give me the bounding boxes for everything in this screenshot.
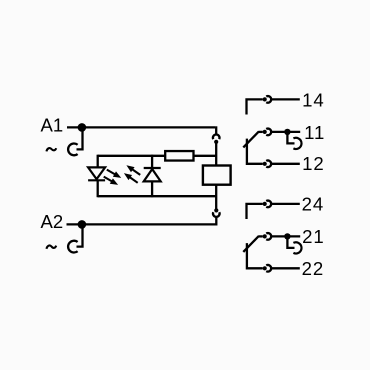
socket, contact 22 <box>266 265 271 272</box>
common stem, contact set 1 <box>247 139 263 164</box>
LED D1 top lead <box>97 155 99 168</box>
label 11 <box>304 122 325 143</box>
pin, contact 21 <box>263 234 267 238</box>
pin, contact 22 <box>263 266 267 270</box>
AC symbol at A2 <box>46 245 56 248</box>
svg-text:A1: A1 <box>41 115 64 136</box>
wire A2 socket branch <box>77 224 83 246</box>
socket, contact 14 <box>266 96 271 103</box>
LED D1 cathode bar <box>88 179 105 181</box>
LED D2 triangle <box>144 169 161 181</box>
pin, contact 24 <box>263 202 267 206</box>
wire 24 to label <box>271 203 300 205</box>
junction dot 11 <box>284 129 290 135</box>
label 22 <box>302 258 324 279</box>
wire input box top <box>98 155 166 157</box>
pin, contact 12 <box>263 162 267 166</box>
contact 11 common wire <box>258 131 262 133</box>
junction dot A2 <box>78 220 87 229</box>
relay coil K <box>203 166 231 185</box>
wire coil plug bottom to A2 <box>215 217 217 226</box>
LED D2 bottom lead <box>151 181 153 197</box>
socket, contact 11 <box>266 129 271 136</box>
junction dot A1 <box>78 123 87 132</box>
wire 21 to label <box>271 235 300 237</box>
svg-text:A2: A2 <box>41 211 64 232</box>
pin, coil plug top <box>214 140 218 144</box>
label 12 <box>302 153 324 174</box>
socket, coil plug bottom <box>213 212 220 217</box>
wire A1 socket branch <box>77 127 83 149</box>
wire coil to bottom pin <box>215 185 217 210</box>
LED D1 bottom lead <box>97 180 99 197</box>
wire second clamp branch 11 <box>287 133 294 143</box>
socket terminal A1 <box>68 144 78 156</box>
wire A1 corner down to coil plug <box>215 126 217 134</box>
svg-text:24: 24 <box>302 194 324 215</box>
LED D2 emission arrows <box>124 165 140 183</box>
svg-text:22: 22 <box>302 258 324 279</box>
label 24 <box>302 194 324 215</box>
contact 14 fixed NO wire <box>247 99 263 114</box>
socket, second clamp 11 <box>293 138 301 149</box>
relay switch arm, contact set 2 <box>243 236 258 252</box>
LED D1 emission arrows <box>104 170 122 185</box>
wire second clamp branch 21 <box>287 238 294 248</box>
pin, contact 11 <box>263 130 267 134</box>
LED D1 triangle <box>88 167 105 179</box>
socket, second clamp 21 <box>293 242 301 253</box>
junction dot 21 <box>284 233 290 239</box>
wire coil plug to coil <box>215 142 217 166</box>
wire 12 to label <box>271 163 300 165</box>
relay switch arm, contact set 1 <box>243 132 258 148</box>
LED D2 top lead <box>151 155 153 168</box>
wire 14 to label <box>271 98 300 100</box>
pin, contact 14 <box>263 97 267 101</box>
socket terminal A2 <box>68 241 78 253</box>
terminal label A2 <box>41 211 64 232</box>
terminal label A1 <box>41 115 64 136</box>
wire 22 to label <box>271 267 300 269</box>
label 21 <box>302 226 324 247</box>
socket, contact 21 <box>266 233 271 240</box>
resistor R1 <box>165 151 193 161</box>
svg-text:11: 11 <box>304 122 325 143</box>
socket, coil plug top <box>213 135 220 140</box>
wire resistor to coil line <box>194 155 217 157</box>
AC symbol at A1 <box>46 148 56 151</box>
wire A2 <box>67 223 217 225</box>
common stem, contact set 2 <box>247 243 263 268</box>
wire 11 to label <box>271 131 300 133</box>
wire input box bottom <box>98 195 217 197</box>
LED D2 cathode bar <box>144 167 161 169</box>
svg-text:14: 14 <box>302 90 324 111</box>
socket, contact 12 <box>266 161 271 168</box>
socket, contact 24 <box>266 201 271 208</box>
contact 21 common wire <box>258 235 262 237</box>
contact 24 fixed NO wire <box>247 204 263 219</box>
svg-text:21: 21 <box>302 226 324 247</box>
svg-text:12: 12 <box>302 153 324 174</box>
wire A1 <box>67 126 215 128</box>
label 14 <box>302 90 324 111</box>
pin, coil plug bottom <box>214 208 218 212</box>
